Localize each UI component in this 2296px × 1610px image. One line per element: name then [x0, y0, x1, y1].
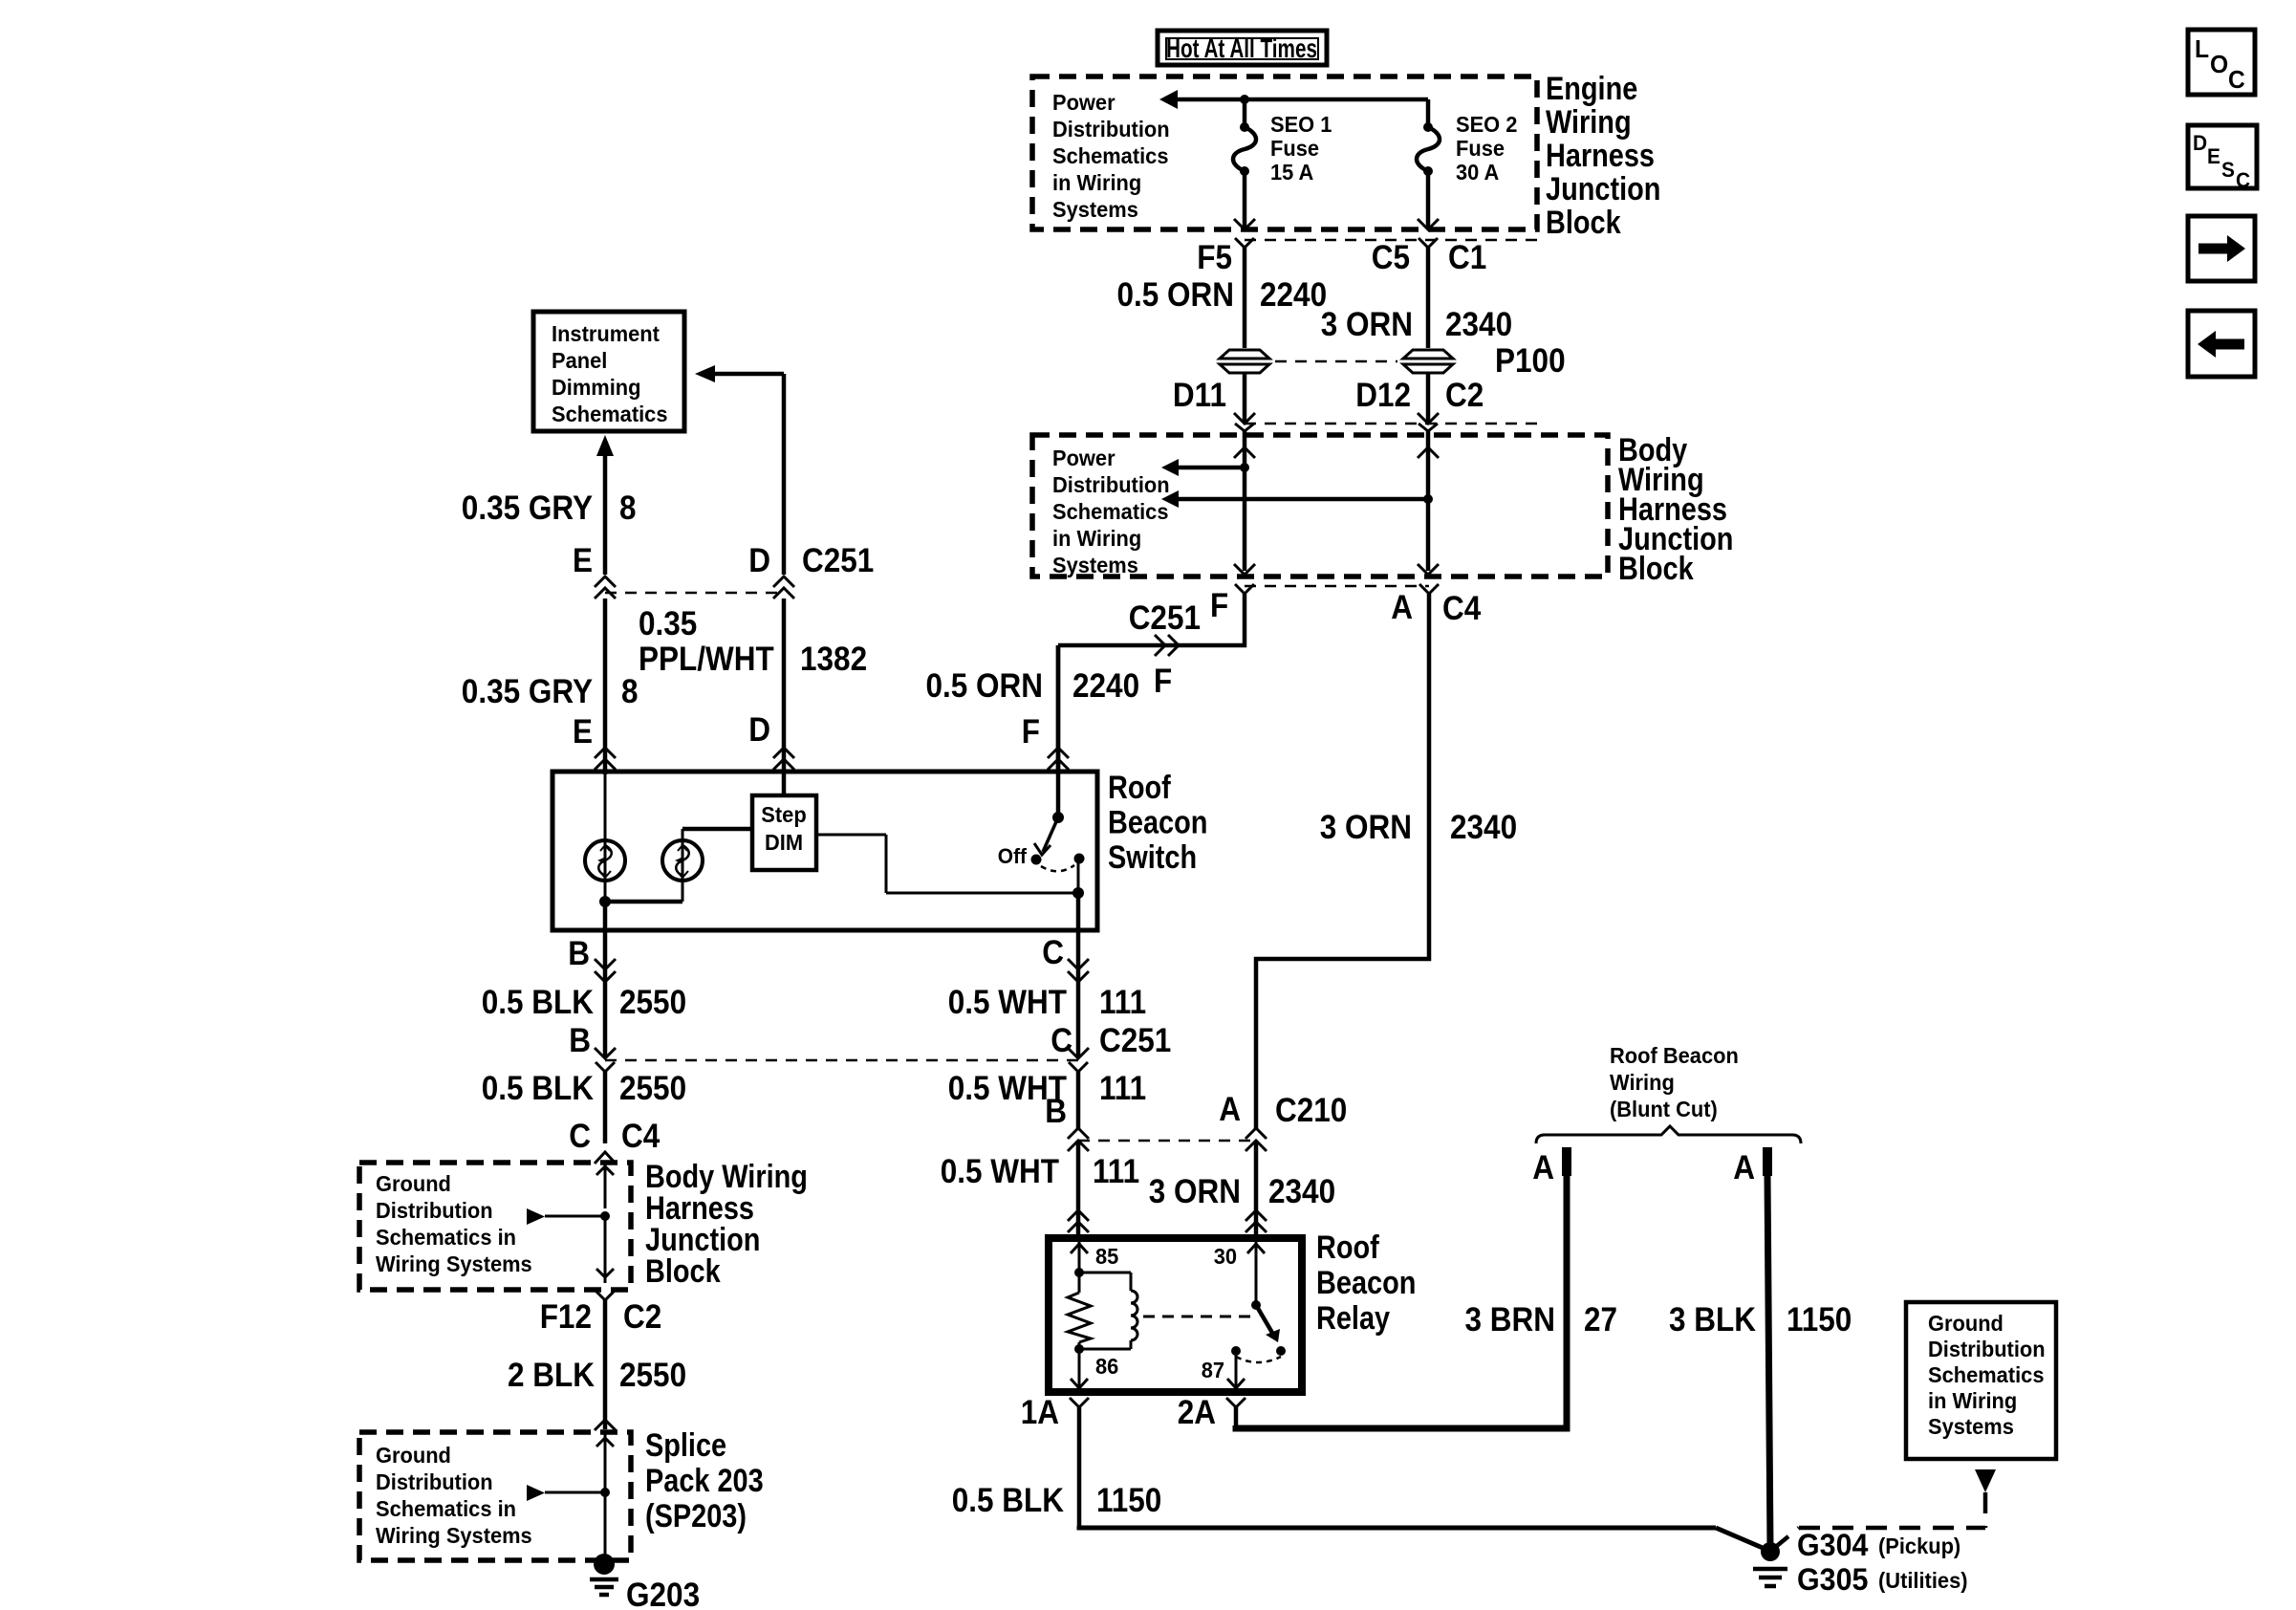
svg-text:Relay: Relay — [1316, 1300, 1390, 1337]
svg-text:Schematics: Schematics — [552, 402, 668, 426]
svg-text:Fuse: Fuse — [1456, 136, 1505, 161]
svg-text:Distribution: Distribution — [1052, 117, 1170, 141]
svg-text:A: A — [1391, 589, 1413, 626]
svg-text:E: E — [573, 713, 593, 751]
svg-text:Wiring Systems: Wiring Systems — [376, 1251, 532, 1276]
svg-text:C5: C5 — [1372, 239, 1410, 276]
svg-text:Ground: Ground — [1928, 1311, 2004, 1336]
svg-text:E: E — [2207, 144, 2220, 168]
svg-text:C: C — [1051, 1022, 1072, 1059]
svg-text:D11: D11 — [1173, 377, 1226, 414]
svg-text:2240: 2240 — [1260, 276, 1327, 314]
svg-text:3 BLK: 3 BLK — [1669, 1301, 1756, 1338]
svg-text:27: 27 — [1584, 1301, 1617, 1338]
svg-text:B: B — [1045, 1093, 1067, 1130]
svg-text:2340: 2340 — [1445, 306, 1512, 343]
svg-text:Distribution: Distribution — [376, 1198, 493, 1223]
svg-text:F: F — [1210, 587, 1228, 624]
svg-text:Schematics in: Schematics in — [376, 1225, 516, 1250]
svg-text:Schematics: Schematics — [1052, 499, 1169, 524]
svg-text:C251: C251 — [802, 542, 874, 579]
svg-text:Beacon: Beacon — [1108, 805, 1207, 841]
svg-text:Block: Block — [1618, 551, 1694, 587]
svg-text:1150: 1150 — [1787, 1301, 1852, 1338]
svg-text:2A: 2A — [1178, 1394, 1216, 1431]
svg-text:F: F — [1154, 663, 1172, 700]
svg-text:8: 8 — [621, 673, 639, 710]
svg-text:A: A — [1532, 1149, 1554, 1186]
svg-text:C2: C2 — [623, 1298, 661, 1336]
svg-text:(SP203): (SP203) — [645, 1498, 747, 1534]
svg-text:C210: C210 — [1275, 1092, 1347, 1129]
svg-text:in Wiring: in Wiring — [1052, 170, 1141, 195]
svg-text:Pack 203: Pack 203 — [645, 1463, 764, 1499]
svg-text:Off: Off — [998, 844, 1028, 868]
svg-text:0.5 BLK: 0.5 BLK — [482, 1070, 594, 1107]
svg-text:C: C — [2236, 168, 2250, 192]
svg-text:B: B — [569, 1022, 591, 1059]
svg-text:B: B — [568, 935, 590, 972]
svg-text:Engine: Engine — [1546, 71, 1637, 107]
svg-text:C1: C1 — [1448, 239, 1486, 276]
svg-text:F: F — [1022, 713, 1040, 751]
svg-text:D: D — [2193, 131, 2207, 155]
svg-text:D: D — [748, 542, 770, 579]
svg-text:O: O — [2210, 50, 2228, 78]
svg-text:G304: G304 — [1797, 1528, 1869, 1562]
svg-text:Instrument: Instrument — [552, 321, 660, 346]
svg-text:C: C — [569, 1118, 591, 1155]
svg-text:1382: 1382 — [800, 641, 867, 678]
svg-text:30 A: 30 A — [1456, 160, 1499, 185]
svg-text:D: D — [748, 711, 770, 749]
svg-text:DIM: DIM — [765, 830, 803, 855]
svg-text:85: 85 — [1095, 1244, 1118, 1269]
svg-text:Roof: Roof — [1108, 770, 1171, 806]
svg-text:C: C — [2228, 65, 2245, 94]
svg-text:2550: 2550 — [619, 1357, 686, 1394]
svg-text:2240: 2240 — [1072, 667, 1139, 705]
svg-text:S: S — [2221, 158, 2235, 182]
svg-text:Power: Power — [1052, 446, 1116, 470]
svg-text:SEO 2: SEO 2 — [1456, 112, 1517, 137]
svg-text:2340: 2340 — [1268, 1173, 1335, 1210]
svg-text:Schematics: Schematics — [1928, 1362, 2045, 1387]
svg-text:0.35: 0.35 — [639, 605, 697, 642]
svg-text:SEO 1: SEO 1 — [1270, 112, 1332, 137]
svg-text:Dimming: Dimming — [552, 375, 641, 400]
svg-text:Power: Power — [1052, 90, 1116, 115]
svg-text:C251: C251 — [1129, 599, 1201, 637]
svg-text:C4: C4 — [1442, 590, 1482, 627]
svg-text:in Wiring: in Wiring — [1052, 526, 1141, 551]
svg-text:Step: Step — [761, 802, 806, 827]
svg-text:Splice: Splice — [645, 1427, 726, 1464]
svg-text:87: 87 — [1202, 1358, 1224, 1382]
svg-text:Distribution: Distribution — [376, 1469, 493, 1494]
svg-text:Roof Beacon: Roof Beacon — [1610, 1043, 1739, 1068]
svg-text:L: L — [2195, 34, 2209, 63]
svg-text:(Pickup): (Pickup) — [1878, 1534, 1960, 1558]
svg-text:0.5 WHT: 0.5 WHT — [948, 984, 1067, 1021]
svg-text:C2: C2 — [1445, 377, 1484, 414]
svg-text:0.5 ORN: 0.5 ORN — [926, 667, 1044, 705]
svg-text:F12: F12 — [540, 1298, 592, 1336]
svg-text:0.35 GRY: 0.35 GRY — [462, 673, 593, 710]
svg-text:111: 111 — [1093, 1153, 1139, 1190]
svg-text:(Blunt Cut): (Blunt Cut) — [1610, 1097, 1718, 1121]
svg-text:Beacon: Beacon — [1316, 1265, 1416, 1301]
svg-text:86: 86 — [1095, 1354, 1118, 1379]
svg-text:3 BRN: 3 BRN — [1465, 1301, 1556, 1338]
svg-text:Systems: Systems — [1928, 1414, 2014, 1439]
svg-text:(Utilities): (Utilities) — [1878, 1568, 1968, 1593]
svg-text:Schematics in: Schematics in — [376, 1496, 516, 1521]
svg-text:C: C — [1042, 934, 1064, 971]
svg-text:Distribution: Distribution — [1052, 472, 1170, 497]
svg-text:PPL/WHT: PPL/WHT — [639, 641, 774, 678]
svg-text:8: 8 — [619, 490, 637, 527]
svg-text:0.5 BLK: 0.5 BLK — [482, 984, 594, 1021]
svg-text:30: 30 — [1214, 1244, 1237, 1269]
svg-text:Ground: Ground — [376, 1443, 451, 1468]
svg-text:C4: C4 — [621, 1118, 661, 1155]
svg-text:Block: Block — [645, 1253, 721, 1290]
svg-text:in Wiring: in Wiring — [1928, 1388, 2017, 1413]
svg-text:15 A: 15 A — [1270, 160, 1313, 185]
svg-text:Systems: Systems — [1052, 553, 1138, 577]
svg-text:111: 111 — [1099, 1070, 1146, 1107]
svg-text:C251: C251 — [1099, 1022, 1171, 1059]
svg-text:Harness: Harness — [1546, 138, 1655, 174]
svg-text:Fuse: Fuse — [1270, 136, 1319, 161]
svg-text:Distribution: Distribution — [1928, 1337, 2046, 1361]
svg-text:2550: 2550 — [619, 984, 686, 1021]
svg-text:Wiring Systems: Wiring Systems — [376, 1523, 532, 1548]
svg-text:A: A — [1733, 1149, 1755, 1186]
svg-text:Systems: Systems — [1052, 197, 1138, 222]
svg-text:E: E — [573, 542, 593, 579]
svg-text:Wiring: Wiring — [1610, 1070, 1675, 1095]
svg-text:G203: G203 — [626, 1577, 700, 1610]
svg-text:2340: 2340 — [1450, 809, 1517, 846]
svg-text:2 BLK: 2 BLK — [508, 1357, 595, 1394]
svg-text:Junction: Junction — [1546, 171, 1660, 207]
svg-text:Wiring: Wiring — [1546, 104, 1632, 141]
svg-text:111: 111 — [1099, 984, 1146, 1021]
svg-text:G305: G305 — [1797, 1562, 1868, 1597]
svg-text:0.5 BLK: 0.5 BLK — [952, 1482, 1064, 1519]
svg-text:3 ORN: 3 ORN — [1320, 809, 1412, 846]
svg-text:0.5 WHT: 0.5 WHT — [941, 1153, 1059, 1190]
svg-text:Switch: Switch — [1108, 839, 1197, 876]
svg-text:Panel: Panel — [552, 348, 607, 373]
svg-text:P100: P100 — [1495, 342, 1566, 380]
svg-text:Roof: Roof — [1316, 1229, 1379, 1266]
svg-text:F5: F5 — [1197, 239, 1232, 276]
svg-text:D12: D12 — [1355, 377, 1411, 414]
svg-text:1A: 1A — [1021, 1394, 1059, 1431]
svg-text:Block: Block — [1546, 205, 1621, 241]
svg-text:3 ORN: 3 ORN — [1149, 1173, 1241, 1210]
svg-text:Ground: Ground — [376, 1171, 451, 1196]
svg-text:0.5 ORN: 0.5 ORN — [1117, 276, 1235, 314]
svg-text:1150: 1150 — [1096, 1482, 1161, 1519]
svg-text:Hot At All Times: Hot At All Times — [1166, 33, 1317, 63]
svg-text:2550: 2550 — [619, 1070, 686, 1107]
svg-text:Schematics: Schematics — [1052, 143, 1169, 168]
svg-text:0.35 GRY: 0.35 GRY — [462, 490, 593, 527]
svg-text:3 ORN: 3 ORN — [1321, 306, 1413, 343]
svg-text:A: A — [1219, 1091, 1241, 1128]
